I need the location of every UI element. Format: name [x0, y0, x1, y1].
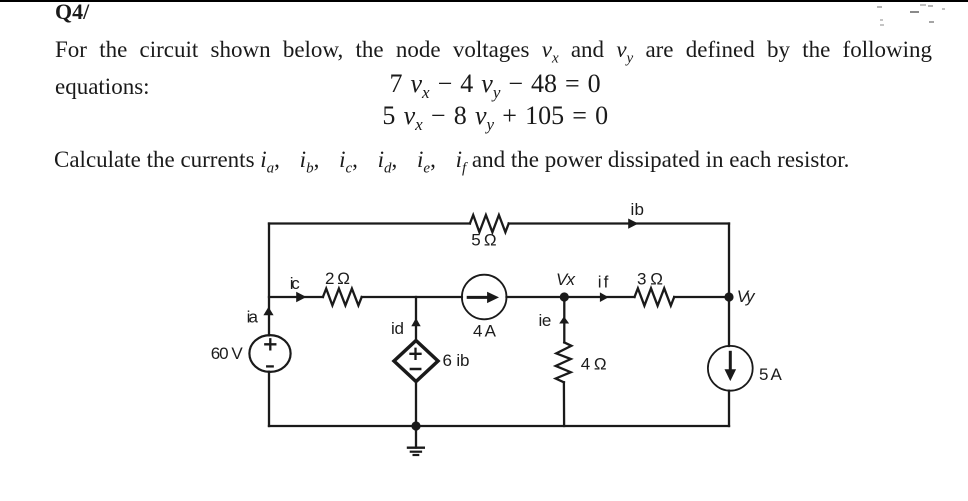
label 5 A — [759, 365, 782, 384]
wire: 4A source to node Vx — [507, 296, 565, 298]
wire: middle segment (2 ohm to 4A source) — [362, 296, 462, 298]
svg-text:ia: ia — [247, 308, 259, 327]
node: bottom junction (ground node) — [411, 421, 420, 430]
wire: bottom side — [269, 425, 729, 427]
label 2 ohm — [325, 269, 350, 288]
label 3 ohm — [637, 270, 663, 289]
node Vx — [560, 292, 569, 301]
svg-text:2 Ω: 2 Ω — [325, 269, 350, 288]
wire: 3 ohm to node Vy — [674, 296, 729, 298]
equation 2 — [382, 103, 608, 138]
heading Q4/ — [55, 0, 89, 25]
label ie — [539, 311, 552, 330]
node Vy — [724, 292, 733, 301]
paragraph line 1 (justified) — [55, 37, 932, 72]
wire: right side upper — [728, 224, 730, 347]
svg-text:5 A: 5 A — [759, 365, 782, 384]
svg-text:3 Ω: 3 Ω — [637, 270, 663, 289]
line 2: equations: — [55, 74, 150, 99]
wire: left side bottom (60V source to corner) — [268, 372, 270, 426]
current arrow ib — [628, 219, 638, 229]
svg-text:4 Ω: 4 Ω — [581, 355, 607, 374]
svg-text:4 A: 4 A — [473, 322, 497, 341]
dependent source 6 ib (diamond) — [394, 341, 438, 382]
resistor 3 ohm — [635, 288, 675, 305]
label Vy — [737, 287, 756, 306]
current source 5 A — [708, 346, 753, 391]
current arrow ie — [559, 316, 569, 323]
voltage source 60 V — [249, 335, 290, 372]
label Vx — [556, 270, 576, 289]
ground symbol — [408, 426, 424, 455]
svg-text:Vx: Vx — [556, 270, 576, 289]
wire: diamond branch upper — [415, 297, 417, 341]
wire: middle left segment — [269, 296, 323, 298]
label ic — [290, 274, 301, 293]
wire: 4 ohm to bottom side — [563, 382, 565, 426]
wire: left side top (corner to 60V source) — [268, 224, 270, 336]
wire: top side left segment — [269, 222, 470, 224]
label 5 ohm — [471, 231, 496, 250]
equation 1 — [390, 71, 601, 106]
svg-text:ib: ib — [631, 200, 645, 219]
svg-text:60 V: 60 V — [211, 344, 244, 363]
resistor 2 ohm — [323, 289, 362, 306]
label 4 ohm — [581, 355, 607, 374]
wire: right side lower — [728, 391, 730, 426]
label if — [598, 272, 609, 291]
svg-text:ie: ie — [539, 311, 552, 330]
label ib — [631, 200, 645, 219]
svg-text:Vy: Vy — [737, 287, 756, 306]
top border line — [0, 0, 968, 2]
current arrow ia — [263, 307, 273, 315]
wire: diamond branch lower — [415, 382, 417, 427]
svg-text:6 ib: 6 ib — [443, 351, 470, 370]
label 4 A — [473, 322, 497, 341]
wire: Vx to 3 ohm — [564, 296, 634, 298]
current arrow ic — [296, 292, 306, 303]
resistor 4 ohm (vertical) — [556, 342, 572, 382]
wire: Vx branch down to 4 ohm — [563, 297, 565, 342]
paragraph line 3 — [54, 147, 849, 182]
current arrow if — [600, 292, 609, 302]
current source 4 A — [462, 275, 507, 320]
faint scan marks top right — [877, 6, 882, 8]
svg-text:if: if — [598, 272, 609, 291]
svg-text:5 Ω: 5 Ω — [471, 231, 496, 250]
svg-text:ic: ic — [290, 274, 301, 293]
wire: top side right segment — [509, 222, 729, 224]
label ia — [247, 308, 259, 327]
current arrow id — [411, 318, 420, 326]
label 6 ib — [443, 351, 470, 370]
resistor 5 ohm (top) — [470, 215, 509, 232]
svg-text:id: id — [391, 319, 404, 338]
label 60 V — [211, 344, 244, 363]
label id — [391, 319, 404, 338]
